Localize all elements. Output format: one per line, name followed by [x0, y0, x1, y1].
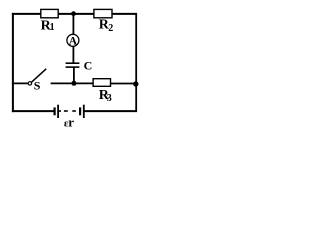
resistor R1	[41, 9, 59, 33]
wire A-branch upper stub	[72, 14, 74, 35]
node junction right (middle wire to right wire)	[133, 81, 138, 86]
battery cell 1 negative plate	[53, 107, 55, 115]
svg-text:1: 1	[50, 22, 55, 33]
wire top (R2 to top-right corner)	[111, 13, 137, 15]
wire A to capacitor	[72, 46, 74, 63]
node junction top (A branch)	[71, 11, 76, 16]
svg-text:A: A	[69, 35, 78, 47]
battery stub after cell 1	[59, 110, 61, 112]
svg-text:2: 2	[108, 23, 113, 34]
wire middle left (to switch)	[12, 82, 28, 84]
svg-text:C: C	[84, 59, 93, 73]
battery label epsilon r	[64, 115, 74, 130]
ammeter A	[67, 34, 79, 47]
wire top (R1 to junction A-branch)	[57, 13, 75, 15]
resistor R3	[93, 79, 112, 104]
svg-text:r: r	[68, 115, 74, 130]
wire capacitor to middle-wire junction	[73, 67, 75, 84]
resistor R2	[94, 9, 113, 34]
battery cell 1 positive plate	[57, 105, 59, 118]
battery cell 2 negative plate	[79, 107, 81, 115]
battery cell 2 positive plate	[83, 105, 85, 118]
wire bottom (left segment to battery)	[12, 110, 54, 112]
capacitor C	[66, 59, 93, 73]
switch S	[28, 69, 46, 93]
wire middle (switch to junction and R3)	[51, 82, 94, 84]
wire left vertical	[12, 13, 14, 112]
wire right vertical	[135, 13, 137, 112]
wire top (left segment to R1)	[12, 13, 42, 15]
svg-text:3: 3	[107, 93, 112, 104]
wire bottom (battery to bottom-right corner)	[84, 110, 137, 112]
battery dash 2	[72, 110, 76, 112]
wire middle (R3 to right wire)	[111, 83, 138, 85]
battery dash 1	[64, 110, 68, 112]
svg-text:S: S	[34, 78, 41, 92]
node junction middle (C branch)	[71, 81, 76, 86]
wire top (junction to R2)	[73, 13, 95, 15]
